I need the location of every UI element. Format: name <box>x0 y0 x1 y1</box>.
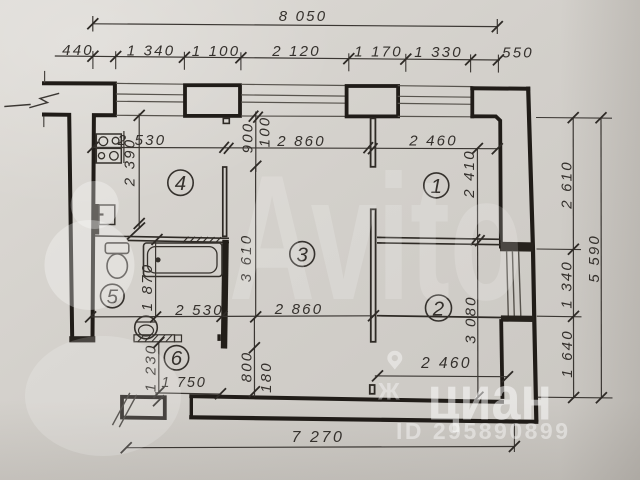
window right sill lines <box>507 252 521 317</box>
wall right segment B inner face <box>501 321 502 397</box>
svg-text:ID 295890899: ID 295890899 <box>396 418 571 444</box>
partition bathroom / room3 black bar <box>221 240 229 349</box>
partition room3 / rooms 1-2 upper segment <box>371 118 376 167</box>
svg-text:1 330: 1 330 <box>414 44 463 61</box>
bathroom door slash <box>127 223 145 240</box>
dim row 1750 <box>155 393 222 394</box>
shelf hatched <box>134 335 175 342</box>
svg-text:6: 6 <box>171 347 183 370</box>
room circle 6 <box>164 346 188 370</box>
dim row 7270 <box>126 447 514 448</box>
room circle 5 <box>101 284 125 308</box>
window sill lines kitchen window <box>117 83 184 116</box>
svg-text:5 590: 5 590 <box>586 234 603 283</box>
door nub bathroom partition <box>217 334 220 341</box>
dim vert 800/180 <box>253 318 255 397</box>
cian pin icon <box>387 351 402 370</box>
witness rows right <box>536 118 613 398</box>
dim vert 1870 <box>155 242 157 318</box>
partition rooms 1/2 <box>377 237 501 239</box>
partition room2 bottom <box>377 316 501 318</box>
svg-text:800: 800 <box>238 351 255 383</box>
dim row top segments <box>55 56 500 60</box>
partition room3 / rooms 1-2 main segment <box>371 209 376 341</box>
svg-text:2 610: 2 610 <box>558 160 575 210</box>
watermark blob bottom-left <box>25 336 181 456</box>
window sill lines window 3 <box>398 86 472 117</box>
dim vert 2390 <box>138 114 140 229</box>
dim vert 1230 <box>158 343 160 393</box>
wall pier 2 <box>347 86 399 116</box>
dim row bottom 2530/2860 <box>91 316 374 317</box>
dim vert 2410/3080 <box>476 149 479 398</box>
dim right outer 5590 <box>600 118 602 398</box>
witness stub below top-left wall <box>43 117 45 127</box>
watermark logo circle small <box>25 181 181 456</box>
svg-text:1 870: 1 870 <box>139 263 156 312</box>
kitchen sink <box>99 205 115 225</box>
witness stub above top-left wall <box>44 72 46 83</box>
partition stub at bottom wall <box>370 385 375 394</box>
svg-text:1 640: 1 640 <box>559 329 576 378</box>
watermark logo circle large <box>45 220 135 310</box>
wall right segment A bottom cap <box>500 242 534 252</box>
wall right outer face <box>528 89 536 420</box>
svg-text:440: 440 <box>62 42 94 59</box>
svg-text:4: 4 <box>175 172 186 195</box>
dim right inner 2610/1340/1640 <box>572 118 574 399</box>
wall top-left T piece with left outer wall <box>44 83 115 339</box>
washbasin <box>135 316 158 339</box>
dim vert 3610 <box>255 166 257 317</box>
svg-text:2 120: 2 120 <box>271 43 321 60</box>
wall bottom <box>191 417 536 422</box>
svg-text:7 270: 7 270 <box>291 429 344 446</box>
svg-text:Ж: Ж <box>377 379 400 406</box>
partition kitchen stub at wall <box>223 118 229 123</box>
svg-text:1 170: 1 170 <box>354 44 403 61</box>
svg-text:2 530: 2 530 <box>174 302 224 319</box>
stove <box>96 134 121 148</box>
room circle 1 <box>424 173 449 198</box>
wall left bottom cap <box>69 336 95 342</box>
toilet <box>105 243 129 254</box>
wall pier 1 <box>185 85 240 116</box>
dim vert 900/100 <box>255 112 257 173</box>
svg-text:1 340: 1 340 <box>127 43 176 60</box>
dimension tick marks <box>85 18 607 453</box>
svg-text:Avito: Avito <box>229 139 523 338</box>
svg-text:1 100: 1 100 <box>192 43 241 60</box>
wall right segment B top cap <box>501 315 534 322</box>
room circle 3 <box>290 242 315 267</box>
break mark bottom-left <box>113 394 137 427</box>
partition kitchen / room3 <box>223 167 227 236</box>
room circle 4 <box>168 170 193 195</box>
room circle 2 <box>426 295 452 321</box>
break mark top-left zigzag <box>5 94 59 108</box>
svg-text:550: 550 <box>502 45 534 62</box>
dim row 8050 <box>93 24 498 27</box>
svg-text:8 050: 8 050 <box>279 8 328 25</box>
svg-text:1 340: 1 340 <box>558 260 575 309</box>
bathtub <box>144 243 223 277</box>
kitchen sink riser black <box>93 204 99 235</box>
dim row 2460 room2 <box>375 375 508 378</box>
partition bathroom top (hatched band) <box>95 236 229 238</box>
window sill lines window 2 <box>242 84 346 116</box>
counter edge line <box>123 131 125 163</box>
svg-text:180: 180 <box>258 361 275 393</box>
wall top-right corner piece <box>472 116 501 246</box>
dim row kitchen top: 2530/2860/2460 <box>93 147 497 148</box>
wall entrance left piece <box>122 397 165 418</box>
svg-text:2 390: 2 390 <box>121 138 138 188</box>
